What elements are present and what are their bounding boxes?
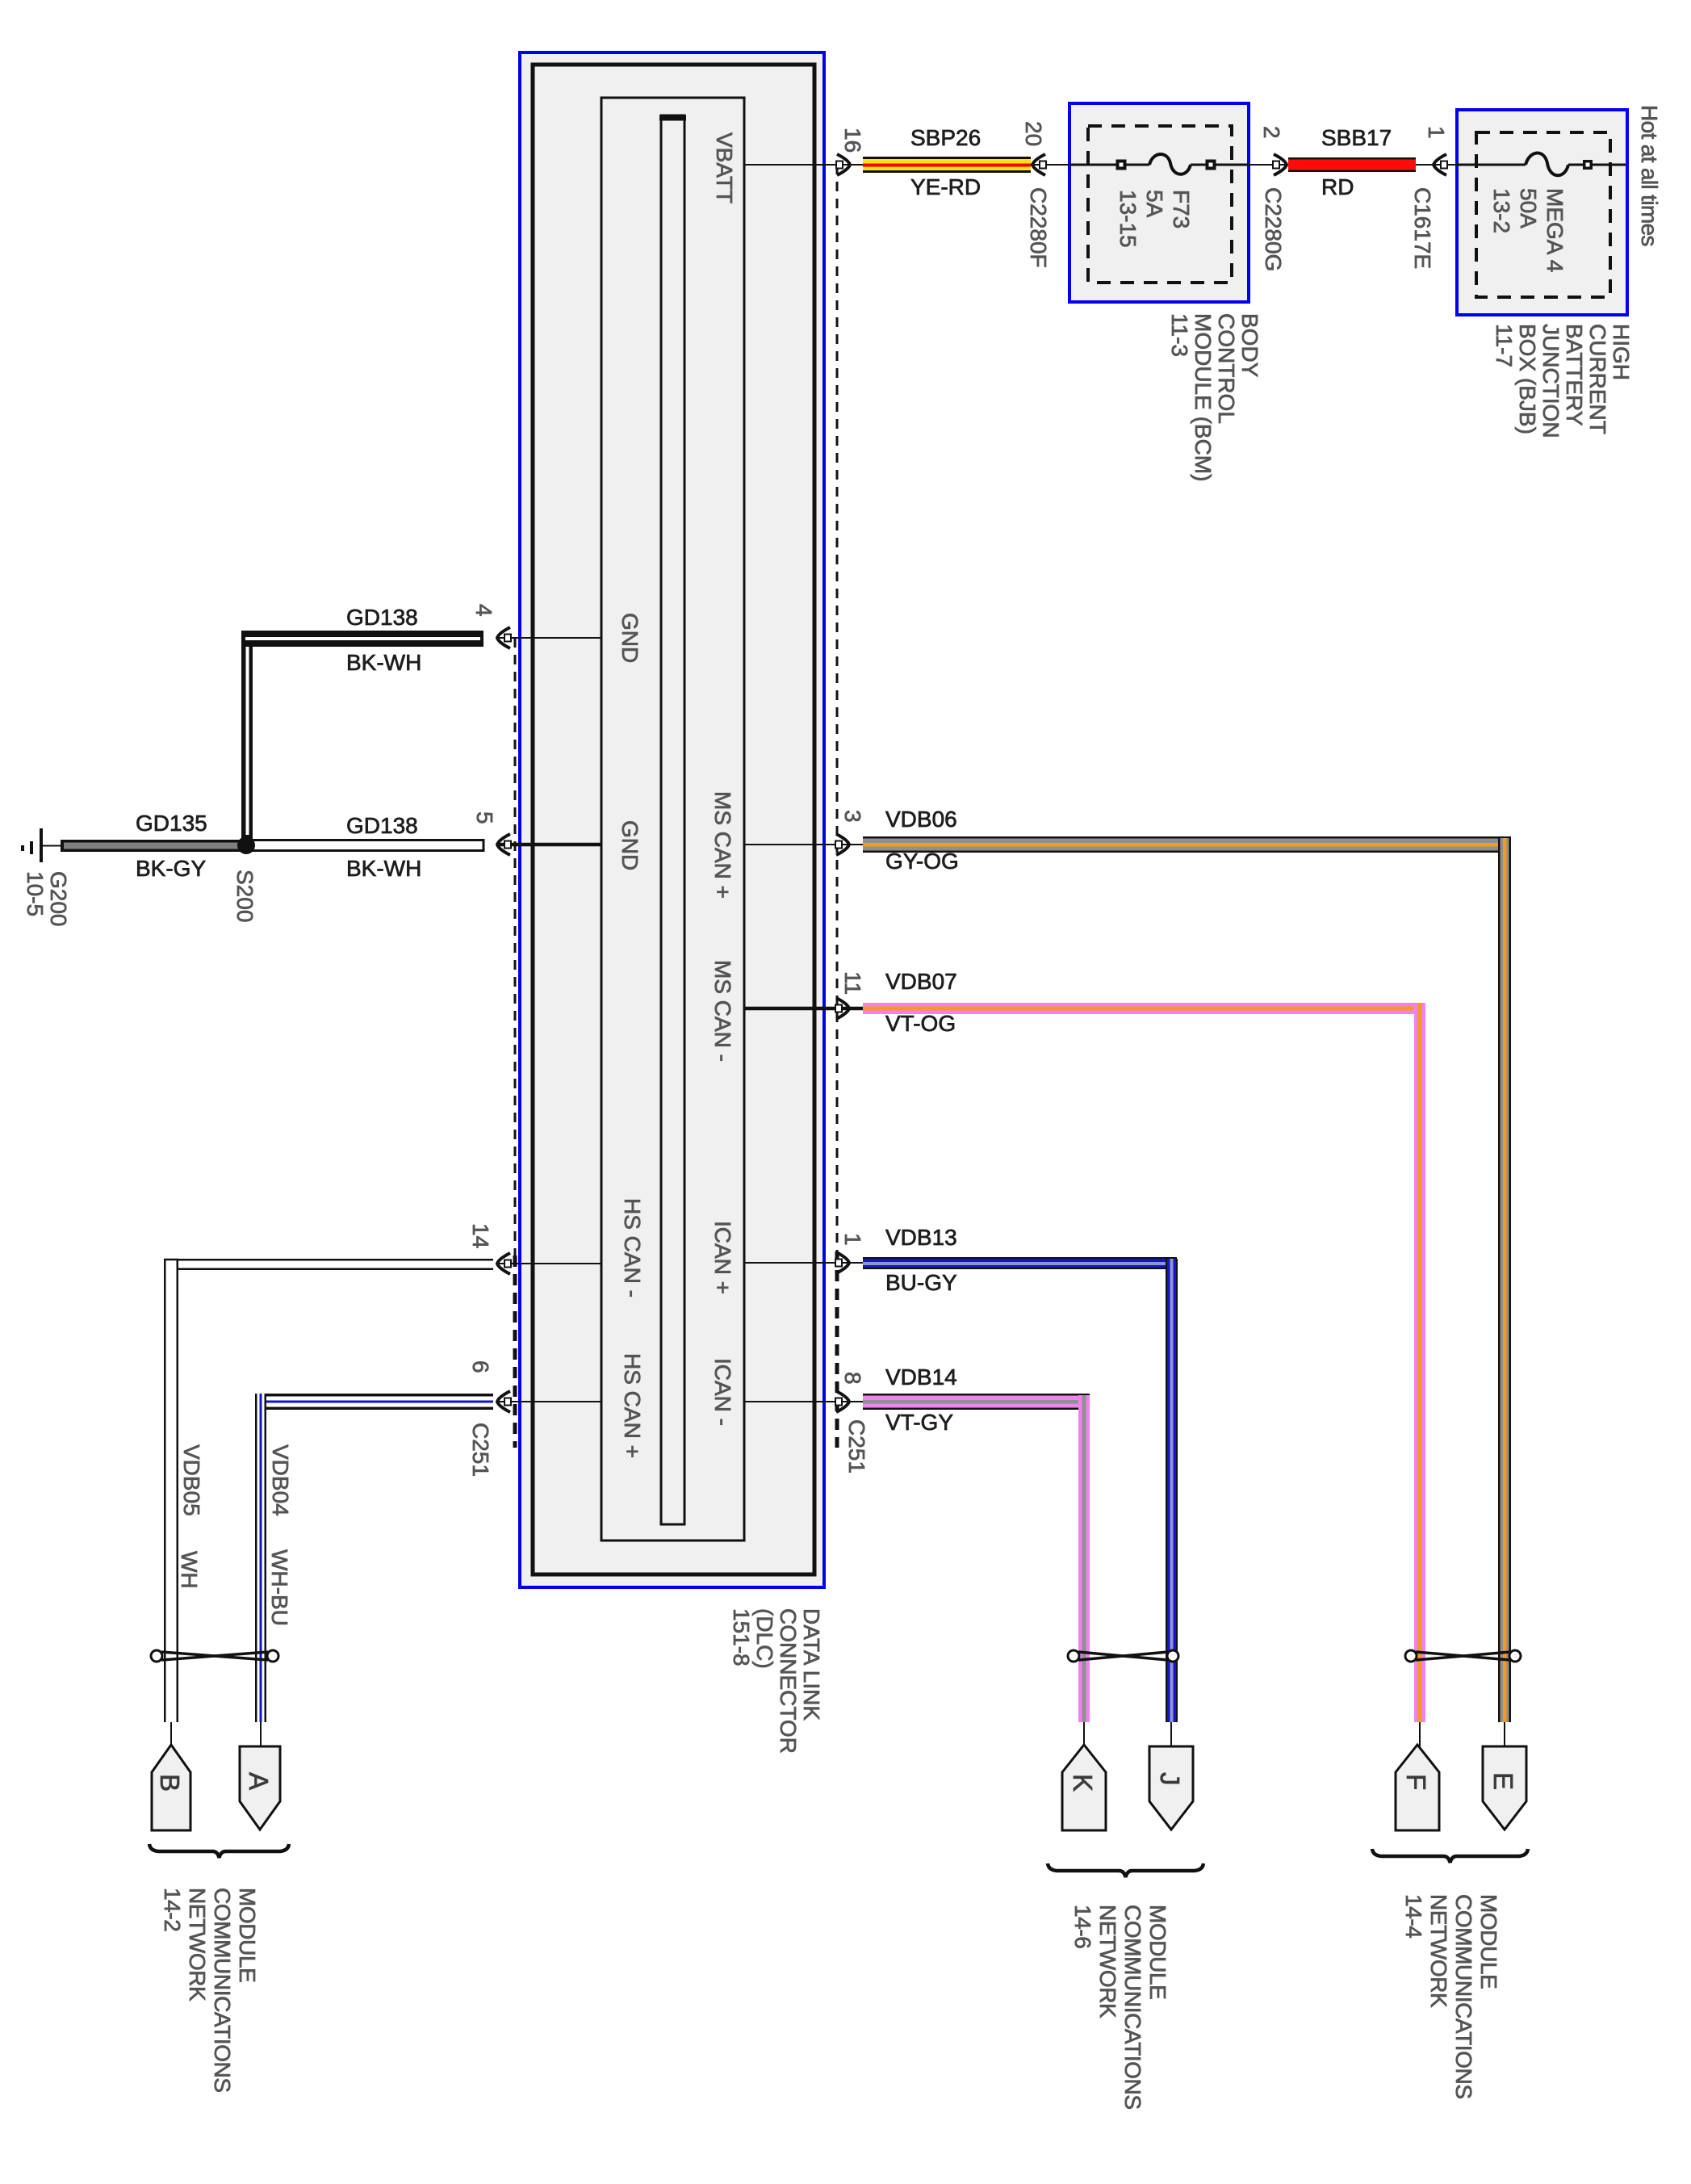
- svg-text:YE-RD: YE-RD: [910, 174, 981, 199]
- svg-text:MODULE: MODULE: [1476, 1894, 1501, 1989]
- svg-text:CONNECTOR: CONNECTOR: [776, 1608, 801, 1754]
- svg-text:SBB17: SBB17: [1321, 125, 1392, 150]
- svg-text:HIGH: HIGH: [1609, 324, 1634, 380]
- svg-text:C251: C251: [468, 1423, 493, 1477]
- svg-text:COMMUNICATIONS: COMMUNICATIONS: [1120, 1905, 1145, 2110]
- svg-text:HS CAN +: HS CAN +: [620, 1353, 645, 1458]
- svg-text:MS CAN +: MS CAN +: [710, 791, 735, 899]
- svg-text:VT-GY: VT-GY: [885, 1410, 953, 1435]
- svg-text:VDB04: VDB04: [268, 1444, 293, 1516]
- svg-text:F73: F73: [1169, 190, 1194, 228]
- svg-text:BK-WH: BK-WH: [346, 650, 421, 675]
- svg-text:ICAN +: ICAN +: [710, 1221, 735, 1294]
- svg-text:5A: 5A: [1142, 190, 1167, 218]
- svg-text:NETWORK: NETWORK: [185, 1888, 210, 2002]
- svg-text:11-7: 11-7: [1492, 324, 1517, 367]
- svg-text:VDB06: VDB06: [885, 807, 957, 832]
- svg-text:BK-GY: BK-GY: [136, 856, 206, 881]
- svg-text:3: 3: [840, 810, 865, 823]
- svg-text:14-6: 14-6: [1070, 1905, 1095, 1948]
- svg-text:11: 11: [840, 971, 865, 995]
- svg-text:VDB05: VDB05: [179, 1444, 204, 1516]
- svg-text:COMMUNICATIONS: COMMUNICATIONS: [1451, 1894, 1476, 2099]
- svg-text:E: E: [1488, 1772, 1518, 1790]
- svg-text:MODULE: MODULE: [235, 1888, 260, 1982]
- svg-text:NETWORK: NETWORK: [1426, 1894, 1451, 2008]
- svg-text:11-3: 11-3: [1167, 313, 1192, 357]
- svg-text:SBP26: SBP26: [910, 125, 981, 150]
- svg-text:J: J: [1155, 1772, 1185, 1786]
- svg-text:WH-BU: WH-BU: [267, 1549, 292, 1626]
- svg-text:C251: C251: [844, 1419, 869, 1473]
- svg-text:GY-OG: GY-OG: [885, 849, 959, 874]
- svg-text:WH: WH: [177, 1551, 202, 1589]
- svg-text:A: A: [244, 1772, 274, 1790]
- svg-text:50A: 50A: [1516, 188, 1541, 228]
- svg-text:MEGA 4: MEGA 4: [1542, 188, 1568, 272]
- svg-text:F: F: [1401, 1774, 1431, 1790]
- svg-text:8: 8: [840, 1372, 865, 1385]
- svg-text:2: 2: [1259, 126, 1284, 139]
- svg-text:BOX (BJB): BOX (BJB): [1515, 324, 1540, 434]
- svg-text:DATA LINK: DATA LINK: [799, 1608, 824, 1721]
- svg-text:20: 20: [1021, 121, 1046, 146]
- svg-text:151-8: 151-8: [729, 1608, 754, 1666]
- svg-text:4: 4: [471, 604, 496, 617]
- svg-text:10-5: 10-5: [23, 871, 48, 916]
- svg-text:NETWORK: NETWORK: [1095, 1905, 1120, 2018]
- svg-text:BODY: BODY: [1237, 313, 1262, 378]
- svg-text:VDB07: VDB07: [885, 969, 957, 994]
- svg-text:6: 6: [468, 1360, 493, 1373]
- svg-text:HS CAN -: HS CAN -: [620, 1198, 645, 1297]
- svg-text:5: 5: [472, 811, 497, 824]
- svg-text:MODULE: MODULE: [1145, 1905, 1170, 1999]
- svg-text:K: K: [1068, 1774, 1098, 1792]
- svg-text:VDB14: VDB14: [885, 1364, 957, 1390]
- svg-text:BK-WH: BK-WH: [346, 856, 421, 881]
- svg-text:MODULE (BCM): MODULE (BCM): [1191, 313, 1216, 481]
- svg-text:C2280F: C2280F: [1026, 187, 1051, 268]
- svg-text:RD: RD: [1321, 174, 1354, 199]
- svg-text:GND: GND: [617, 820, 642, 870]
- svg-text:CURRENT: CURRENT: [1585, 324, 1610, 434]
- svg-text:1: 1: [1424, 126, 1449, 139]
- svg-text:14-4: 14-4: [1401, 1894, 1426, 1938]
- svg-text:Hot at all times: Hot at all times: [1637, 105, 1662, 246]
- svg-text:14: 14: [468, 1223, 493, 1248]
- svg-text:(DLC): (DLC): [752, 1608, 777, 1669]
- svg-text:COMMUNICATIONS: COMMUNICATIONS: [210, 1888, 235, 2093]
- svg-text:1: 1: [840, 1233, 865, 1246]
- svg-text:GD138: GD138: [346, 813, 418, 838]
- svg-text:JUNCTION: JUNCTION: [1538, 324, 1563, 438]
- svg-text:VDB13: VDB13: [885, 1225, 957, 1250]
- svg-text:GD135: GD135: [136, 811, 207, 836]
- svg-text:14-2: 14-2: [160, 1888, 185, 1931]
- svg-text:C1617E: C1617E: [1410, 187, 1435, 269]
- svg-text:13-15: 13-15: [1115, 190, 1141, 248]
- svg-text:ICAN -: ICAN -: [710, 1358, 735, 1426]
- svg-text:BU-GY: BU-GY: [885, 1270, 957, 1295]
- svg-text:GND: GND: [617, 613, 642, 663]
- svg-text:16: 16: [840, 128, 865, 153]
- svg-text:C2280G: C2280G: [1261, 187, 1286, 271]
- svg-text:B: B: [155, 1774, 185, 1792]
- svg-text:GD138: GD138: [346, 605, 418, 630]
- svg-text:BATTERY: BATTERY: [1562, 324, 1587, 426]
- svg-text:CONTROL: CONTROL: [1214, 313, 1239, 424]
- svg-text:G200: G200: [46, 871, 71, 927]
- svg-text:VBATT: VBATT: [712, 132, 737, 203]
- svg-text:VT-OG: VT-OG: [885, 1011, 956, 1036]
- svg-text:13-2: 13-2: [1489, 188, 1514, 233]
- svg-text:MS CAN -: MS CAN -: [710, 960, 735, 1062]
- svg-text:S200: S200: [232, 870, 257, 922]
